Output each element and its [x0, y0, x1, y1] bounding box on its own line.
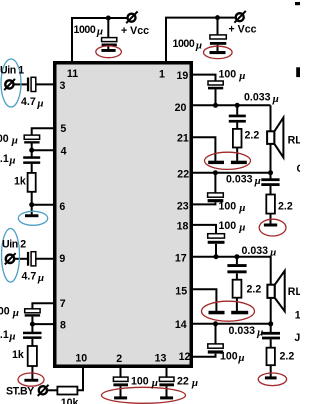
- svg-text:0.033 µ: 0.033 µ: [244, 92, 279, 106]
- wire pin 13 lead: [166, 366, 168, 377]
- capacitor C18 100u plate -: [208, 350, 223, 353]
- wire pin 21 to ground: [192, 137, 215, 161]
- svg-text:6: 6: [59, 201, 65, 213]
- highlight ellipse ground C2: [204, 46, 233, 58]
- svg-text:+ Vcc: + Vcc: [229, 24, 257, 36]
- wire zobel2 top lead: [270, 173, 272, 179]
- connector ST.BY: [38, 385, 49, 396]
- svg-text:100 µ: 100 µ: [219, 220, 246, 234]
- wire Uin1 to C3: [14, 83, 28, 85]
- svg-text:2.2: 2.2: [278, 201, 293, 213]
- capacitor C11 100u plate -: [208, 87, 223, 90]
- svg-text:100µ: 100µ: [220, 351, 245, 365]
- highlight ellipse grounds pin21 R4: [205, 152, 251, 169]
- node pin17 zobel junction: [234, 254, 239, 259]
- resistor R6 2.2: [233, 280, 242, 298]
- wire pin 14 output 2-: [192, 323, 271, 325]
- wire pin 11 to Vcc rail 1: [71, 18, 73, 62]
- wire R7 to ground: [270, 365, 272, 377]
- svg-text:4.7µ: 4.7µ: [22, 271, 45, 285]
- wire C1 ground stub: [107, 46, 109, 50]
- svg-text:15: 15: [175, 285, 187, 297]
- svg-text:100 µ: 100 µ: [219, 69, 246, 83]
- wire C5 to R1: [31, 164, 33, 173]
- connector + Vcc 1: [126, 11, 137, 23]
- ground bar pin 15: [209, 311, 225, 315]
- node pin22 zobel junction: [268, 170, 273, 175]
- speaker RL 1 cone: [274, 118, 283, 158]
- wire C14 to pin 23: [192, 202, 215, 204]
- svg-text:1k: 1k: [14, 176, 26, 188]
- node pin20 zobel junction: [235, 103, 240, 108]
- wire C6 to pin 9: [36, 258, 54, 260]
- highlight ellipse ground C1: [96, 46, 122, 58]
- svg-text:17: 17: [175, 252, 187, 264]
- ground bar below C1: [101, 49, 115, 52]
- ground bar below R4: [231, 161, 247, 164]
- wire Vcc rail 1: [71, 17, 127, 19]
- svg-text:22: 22: [177, 168, 189, 180]
- wire C10 ground stub: [166, 386, 168, 397]
- svg-text:22 µ: 22 µ: [177, 376, 198, 390]
- wire R4 to ground: [236, 148, 238, 162]
- ground bar below R5: [264, 224, 277, 227]
- node junction rail2-C2: [215, 15, 220, 20]
- svg-text:0.1µ: 0.1µ: [0, 153, 16, 167]
- capacitor C18 100u plate +: [208, 344, 223, 348]
- capacitor C13 0.033u plate a: [261, 178, 279, 181]
- svg-text:C: C: [297, 163, 301, 175]
- wire C11 to pin 20 line: [215, 89, 217, 106]
- capacitor C4 100u plate +: [24, 135, 39, 139]
- wire speaker1 bottom lead: [270, 144, 272, 173]
- wire R1 to node 6: [31, 192, 33, 205]
- ground bar below R6: [231, 311, 248, 315]
- svg-text:2.2: 2.2: [247, 284, 262, 296]
- wire C3 to pin 3: [36, 83, 54, 85]
- capacitor C4 100u plate -: [24, 141, 39, 143]
- capacitor C7 100u plate -: [25, 314, 40, 316]
- resistor R3 10k: [57, 387, 77, 395]
- wire ST.BY to R3: [47, 389, 57, 391]
- capacitor C6 4.7u plate -: [27, 252, 29, 266]
- capacitor C6 4.7u plate +: [31, 252, 36, 266]
- ground bar below R2: [24, 379, 38, 382]
- ground bar below C9: [114, 396, 127, 399]
- wire speaker2 top lead: [270, 257, 272, 286]
- svg-text:ST.BY: ST.BY: [6, 386, 34, 398]
- svg-text:1000µ: 1000µ: [173, 38, 202, 52]
- capacitor C1 1000u plate +: [102, 38, 117, 42]
- highlight ellipse ground R5: [259, 219, 286, 236]
- capacitor C17 0.033u plate a: [262, 332, 280, 335]
- svg-text:2.2: 2.2: [280, 351, 295, 363]
- IC body U1: [55, 63, 192, 367]
- capacitor C1 1000u plate -: [102, 44, 117, 47]
- svg-text:18: 18: [177, 220, 189, 232]
- wire pin 6: [32, 204, 54, 206]
- svg-text:14: 14: [175, 319, 187, 331]
- highlight ellipse input Uin 1: [1, 59, 21, 107]
- wire C18 to pin 12: [192, 354, 216, 357]
- svg-text:4.7µ: 4.7µ: [21, 96, 44, 110]
- capacitor C17 0.033u plate b: [262, 337, 280, 340]
- highlight ellipse ground R7: [258, 373, 286, 386]
- node pin 8 junction: [30, 322, 35, 327]
- svg-text:100 µ: 100 µ: [0, 133, 18, 147]
- wire pin 1 to Vcc rail 2: [165, 18, 167, 62]
- resistor R7 2.2: [267, 348, 275, 366]
- wire pin 4: [32, 149, 54, 151]
- wire zobel4 top lead: [270, 324, 272, 332]
- capacitor C2 1000u plate +: [210, 35, 226, 39]
- capacitor C11 100u plate +: [208, 81, 223, 85]
- capacitor C10 22u plate -: [159, 383, 174, 386]
- clipped glyph top right corner: [295, 2, 300, 5]
- capacitor C9 100u plate +: [113, 377, 128, 381]
- svg-text:5: 5: [60, 123, 66, 135]
- wire pin 8: [32, 323, 54, 325]
- node pin 4 junction: [29, 148, 34, 153]
- capacitor C16 0.033u plate a: [227, 264, 246, 267]
- wire zobel1 top lead: [236, 105, 238, 115]
- wire speaker1 top lead: [270, 105, 272, 132]
- svg-text:Uin 2: Uin 2: [2, 239, 26, 251]
- wire C15 to pin 17 line: [215, 244, 217, 258]
- svg-text:J: J: [294, 332, 300, 344]
- capacitor C3 4.7u plate -: [27, 78, 29, 92]
- wire C2 top lead: [217, 18, 219, 36]
- svg-text:13: 13: [155, 353, 167, 365]
- node pin22-C14 junction: [213, 170, 218, 175]
- wire node8 to C8: [31, 324, 33, 332]
- resistor R4 2.2: [233, 129, 242, 148]
- svg-text:+ Vcc: + Vcc: [121, 25, 149, 37]
- svg-text:100 µ: 100 µ: [0, 306, 19, 320]
- wire pin 15 to ground: [192, 289, 216, 311]
- svg-text:100 µ: 100 µ: [219, 201, 246, 215]
- svg-text:0.033 µ: 0.033 µ: [242, 245, 277, 259]
- svg-text:1: 1: [159, 69, 165, 81]
- wire C4 to node 4: [31, 144, 33, 152]
- highlight ellipse ground R2: [18, 373, 44, 386]
- capacitor C9 100u plate -: [113, 383, 128, 386]
- node pin 6 junction: [29, 202, 34, 207]
- svg-text:10k: 10k: [61, 397, 79, 404]
- capacitor C13 0.033u plate b: [261, 183, 279, 186]
- resistor R5 2.2: [266, 195, 275, 214]
- svg-text:7: 7: [60, 298, 66, 310]
- svg-text:23: 23: [177, 201, 189, 213]
- connector input Uin 2: [5, 253, 16, 264]
- wire pin 5: [32, 128, 54, 135]
- highlight ellipse grounds C9 C10: [102, 387, 186, 403]
- capacitor C2 1000u plate -: [210, 42, 226, 45]
- capacitor C14 100u plate -: [208, 199, 224, 202]
- wire pin 18: [192, 225, 216, 234]
- wire pin 2 lead: [120, 366, 122, 377]
- wire R6 to ground: [236, 298, 238, 311]
- svg-text:L: L: [296, 286, 301, 298]
- wire pin 17 output 2+: [192, 256, 271, 258]
- wire pin 19: [192, 75, 216, 82]
- wire speaker2 bottom lead: [270, 298, 272, 324]
- svg-text:100 µ: 100 µ: [131, 376, 158, 390]
- highlight ellipse grounds pin15 R6: [202, 301, 255, 321]
- connector input Uin 1: [4, 79, 15, 90]
- node pin20-C11 junction: [213, 103, 218, 108]
- svg-text:Uin 1: Uin 1: [0, 65, 24, 77]
- svg-text:3: 3: [60, 80, 66, 92]
- capacitor C15 100u plate +: [208, 234, 225, 238]
- resistor R1 1k: [28, 173, 36, 192]
- svg-text:9: 9: [59, 253, 65, 265]
- svg-text:1: 1: [295, 310, 300, 322]
- ground bar below C10: [160, 396, 173, 399]
- svg-text:21: 21: [177, 133, 189, 145]
- capacitor C15 100u plate -: [208, 241, 225, 244]
- wire node4 to C5: [31, 150, 33, 156]
- node junction rail1-C1: [106, 16, 111, 21]
- wire node6 ground stub: [31, 205, 33, 215]
- svg-text:19: 19: [177, 70, 189, 82]
- svg-text:2.2: 2.2: [245, 130, 260, 142]
- svg-text:4: 4: [61, 146, 67, 158]
- wire C12 to R4: [236, 123, 238, 129]
- wire R3 to pin 10: [77, 366, 83, 390]
- capacitor C8 0.1u plate a: [23, 332, 42, 335]
- capacitor C8 0.1u plate b: [23, 336, 42, 339]
- highlight ellipse ground node 6: [18, 211, 47, 225]
- capacitor C7 100u plate +: [25, 309, 40, 313]
- speaker RL 2 cone: [275, 271, 285, 311]
- capacitor C5 0.1u plate a: [23, 156, 40, 159]
- wire Uin2 to C6: [15, 258, 28, 260]
- svg-text:0.033 µ: 0.033 µ: [226, 174, 261, 188]
- node pin17-C15 junction: [214, 254, 219, 259]
- ground bar pin 21: [208, 161, 224, 164]
- clipped glyph right edge y72: [296, 67, 300, 77]
- wire C9 ground stub: [120, 386, 122, 397]
- connector + Vcc 2: [234, 11, 245, 23]
- svg-text:8: 8: [60, 319, 66, 331]
- ground bar below C2: [210, 51, 226, 54]
- wire C2 ground stub: [217, 45, 219, 52]
- wire C7 to node 8: [31, 317, 33, 325]
- node pin14-C18 junction: [213, 321, 218, 326]
- svg-text:0.033 µ: 0.033 µ: [229, 325, 264, 339]
- speaker RL 1 driver: [267, 131, 274, 144]
- ground bar below node 6: [25, 214, 38, 217]
- capacitor C14 100u plate +: [208, 193, 224, 197]
- capacitor C12 0.033u plate a: [229, 115, 246, 118]
- wire pin 22 output 1-: [192, 172, 271, 174]
- wire C18 top lead: [215, 324, 217, 344]
- svg-text:1k: 1k: [12, 349, 24, 361]
- wire C16 to R6: [236, 273, 238, 280]
- wire C1 top lead: [107, 18, 109, 38]
- wire R5 to ground: [270, 214, 272, 224]
- wire Vcc rail 2: [165, 17, 236, 19]
- svg-text:11: 11: [67, 68, 78, 80]
- svg-text:1000µ: 1000µ: [74, 24, 103, 38]
- wire R2 to ground: [31, 366, 33, 379]
- capacitor C3 4.7u plate +: [31, 77, 36, 91]
- wire C13 to R5: [270, 186, 272, 195]
- resistor R2 1k: [28, 346, 37, 366]
- svg-text:20: 20: [175, 102, 187, 114]
- wire pin 7: [32, 303, 54, 309]
- speaker RL 2 driver: [267, 285, 274, 298]
- capacitor C10 22u plate +: [159, 377, 174, 381]
- capacitor C12 0.033u plate b: [229, 120, 246, 123]
- capacitor C5 0.1u plate b: [23, 161, 40, 164]
- wire C8 to R2: [31, 339, 33, 346]
- capacitor C16 0.033u plate b: [227, 270, 246, 273]
- svg-text:2: 2: [116, 353, 122, 365]
- ground bar below R7: [265, 376, 277, 379]
- highlight ellipse input Uin 2: [2, 229, 20, 283]
- node pin14 zobel junction: [268, 321, 273, 326]
- svg-text:10: 10: [75, 353, 87, 365]
- wire zobel3 top lead: [236, 257, 238, 265]
- svg-text:L: L: [295, 135, 300, 147]
- svg-text:12: 12: [179, 351, 191, 363]
- wire pin 20 output 1+: [192, 104, 271, 106]
- wire C14 top lead: [214, 173, 216, 193]
- svg-text:0.1µ: 0.1µ: [0, 329, 16, 343]
- wire C17 to R7: [270, 339, 272, 347]
